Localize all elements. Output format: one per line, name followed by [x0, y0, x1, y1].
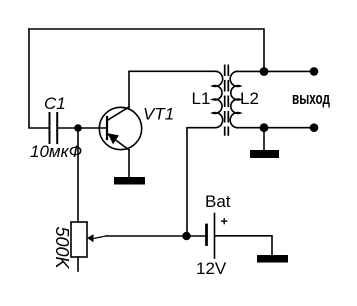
svg-text:L1: L1 [192, 89, 211, 108]
transformer core [225, 65, 229, 136]
wire: base node down to potentiometer [77, 128, 79, 222]
battery Bat negative plate [205, 225, 208, 245]
ground (battery) [257, 255, 288, 263]
svg-text:Bat: Bat [205, 192, 231, 211]
inductor L1 (transformer primary) [213, 71, 223, 127]
transistor VT1 [99, 107, 141, 150]
wire: top rail [29, 29, 264, 71]
wire: emitter to ground [128, 150, 130, 177]
wire: L2 top lead to output top [237, 70, 311, 72]
wire: left rail down to C1 [29, 29, 49, 128]
wire: battery to ground [215, 236, 272, 255]
svg-text:C1: C1 [44, 94, 66, 113]
potentiometer wiper arrow [93, 236, 107, 239]
capacitor C1 [50, 113, 58, 143]
node: base junction [74, 124, 82, 132]
wire: L2 bottom lead to output bottom [237, 127, 311, 129]
svg-text:500K: 500K [52, 227, 72, 270]
label + polarity [221, 218, 227, 224]
node: secondary bottom junction [260, 123, 269, 132]
svg-text:L2: L2 [240, 89, 259, 108]
wire: collector riser and rail to L1 [129, 71, 217, 107]
wire: secondary to ground [263, 128, 265, 150]
potentiometer R1 body 500K [71, 222, 87, 257]
svg-text:10мкФ: 10мкФ [30, 142, 82, 161]
ground (emitter) [114, 177, 145, 185]
svg-text:12V: 12V [196, 259, 227, 278]
svg-text:выход: выход [292, 90, 330, 108]
wire: potentiometer bottom stub [77, 257, 79, 271]
ground (secondary) [250, 150, 279, 158]
terminal: output top [310, 67, 319, 76]
inductor L2 (transformer secondary) [230, 71, 240, 127]
node: secondary top junction [260, 67, 269, 76]
wire: C1 to base node [58, 127, 106, 129]
terminal: output bottom [310, 123, 319, 132]
wire: bottom rail wiper to battery [107, 235, 206, 237]
wire: L1 bottom lead to battery node [187, 128, 216, 236]
svg-text:VT1: VT1 [143, 105, 174, 124]
node: battery junction [182, 232, 190, 240]
battery Bat positive plate [214, 214, 216, 259]
